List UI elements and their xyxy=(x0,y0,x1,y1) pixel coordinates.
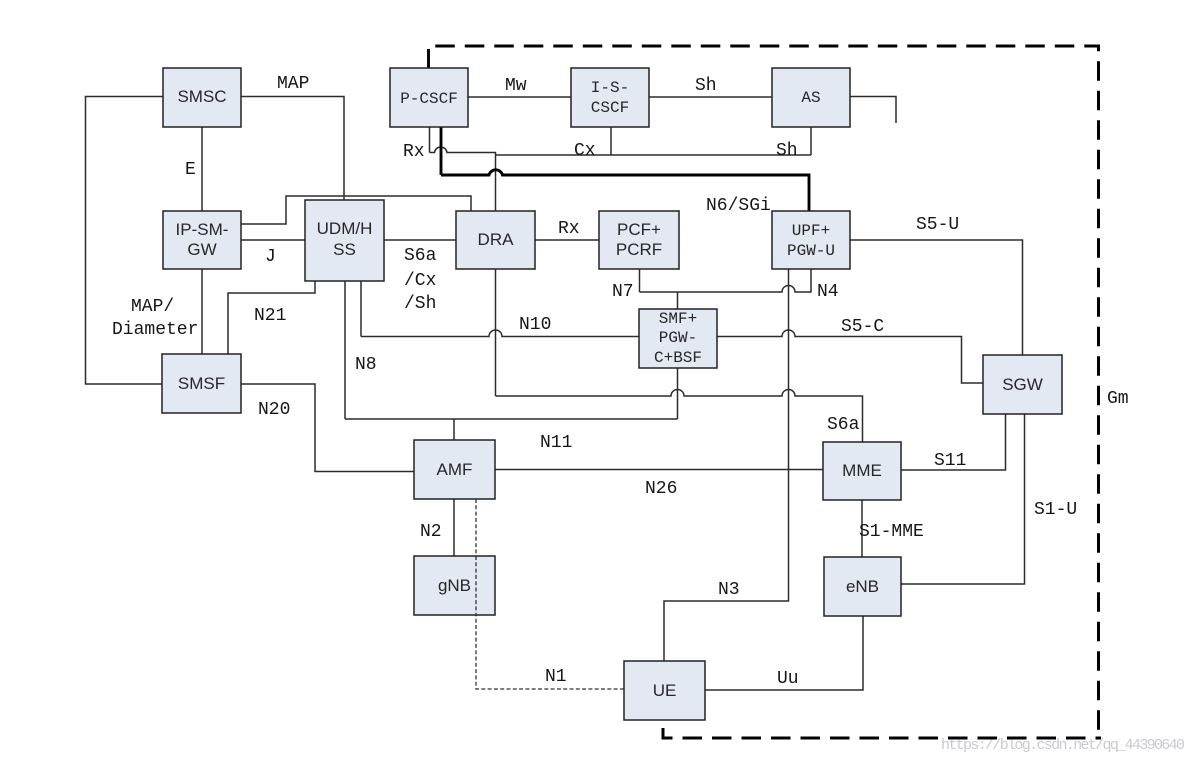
box SMSC xyxy=(163,68,241,127)
label N11 xyxy=(540,433,572,453)
wire N21 UDM/HSS to SMSF xyxy=(228,281,315,354)
svg-text:Mw: Mw xyxy=(505,76,527,96)
svg-text:PGW-: PGW- xyxy=(659,329,697,347)
svg-text:C+BSF: C+BSF xyxy=(654,349,702,367)
svg-text:IP-SM-: IP-SM- xyxy=(176,220,229,239)
label N20 xyxy=(258,400,290,420)
box UPF+PGW-U xyxy=(772,211,850,269)
svg-text:N11: N11 xyxy=(540,433,572,453)
svg-text:/Cx: /Cx xyxy=(404,271,436,291)
box UDM/HSS xyxy=(305,200,384,281)
svg-text:SMF+: SMF+ xyxy=(659,310,697,328)
box AS xyxy=(772,68,850,127)
label E xyxy=(185,160,196,180)
box SMSF xyxy=(162,354,241,413)
svg-text:PCF+: PCF+ xyxy=(617,220,661,239)
wire IP-SM-GW to DRA top xyxy=(241,196,471,224)
svg-text:AS: AS xyxy=(801,89,820,107)
label S5-C xyxy=(841,317,884,337)
label N7 xyxy=(612,282,634,302)
box SMF+PGW-C+BSF xyxy=(639,309,717,368)
wire S11 SGW to MME xyxy=(901,414,1006,470)
wire N2 AMF to gNB xyxy=(453,499,455,556)
svg-text:GW: GW xyxy=(187,240,216,259)
wire S1-MME MME to eNB xyxy=(861,500,863,557)
wire S6a/Cx/Sh UDM/HSS to DRA xyxy=(384,239,456,241)
wire E SMSC to IP-SM-GW xyxy=(201,127,203,211)
svg-text:N3: N3 xyxy=(718,580,740,600)
svg-text:N26: N26 xyxy=(645,479,677,499)
svg-text:SS: SS xyxy=(333,240,356,259)
svg-text:E: E xyxy=(185,160,196,180)
label S11 xyxy=(934,451,966,471)
label S6a MME xyxy=(827,415,860,435)
wire Rx DRA to PCF xyxy=(535,239,599,241)
svg-text:S11: S11 xyxy=(934,451,966,471)
wire S6a DRA to MME xyxy=(496,269,863,442)
label Cx xyxy=(574,141,596,161)
wire S5-U UPF to SGW xyxy=(850,240,1023,355)
wire N10 UDM/HSS to SMF xyxy=(361,281,639,337)
wire S5-C SMF to SGW xyxy=(717,330,983,383)
svg-text:PCRF: PCRF xyxy=(616,240,662,259)
svg-text:https://blog.csdn.net/qq_44390: https://blog.csdn.net/qq_44390640 xyxy=(941,737,1185,754)
label N3 xyxy=(718,580,740,600)
wire Sh I-S-CSCF to AS xyxy=(649,96,772,98)
label N10 xyxy=(519,315,551,335)
wire N7/N4 PCF-SMF-UPF xyxy=(640,269,812,309)
svg-text:N21: N21 xyxy=(254,306,286,326)
svg-text:Diameter: Diameter xyxy=(112,320,198,340)
box UE xyxy=(624,661,705,720)
label N21 xyxy=(254,306,286,326)
svg-text:MME: MME xyxy=(842,461,882,480)
wire SMSC-SMSF left loop xyxy=(86,97,164,385)
wire Gm tick into P-CSCF top xyxy=(427,49,430,68)
svg-text:S6a: S6a xyxy=(827,415,860,435)
svg-text:N10: N10 xyxy=(519,315,551,335)
box MME xyxy=(823,442,901,500)
label Sh AS bottom xyxy=(776,141,798,161)
wire MAP SMSC to UDM/HSS xyxy=(241,97,344,201)
svg-text:CSCF: CSCF xyxy=(591,99,629,117)
svg-text:N8: N8 xyxy=(355,355,377,375)
svg-text:S1-MME: S1-MME xyxy=(859,522,924,542)
svg-text:S1-U: S1-U xyxy=(1034,500,1077,520)
wire Mw P-CSCF to I-S-CSCF xyxy=(468,96,571,98)
label Sh top xyxy=(695,76,717,96)
wire N1 dashed AMF to UE xyxy=(476,499,624,689)
wire N20 SMSF to AMF xyxy=(241,384,414,472)
wire N3 UPF to UE xyxy=(664,269,789,661)
svg-text:SGW: SGW xyxy=(1002,375,1043,394)
box eNB xyxy=(824,557,901,616)
label S1-U xyxy=(1034,500,1077,520)
svg-text:N1: N1 xyxy=(545,667,567,687)
svg-text:UDM/H: UDM/H xyxy=(317,219,373,238)
wire Cx/Sh/Rx thin P-CSCF/I-S-CSCF/AS to DRA xyxy=(430,127,812,211)
label N2 xyxy=(420,522,442,542)
svg-text:N4: N4 xyxy=(817,282,839,302)
label N1 xyxy=(545,667,567,687)
svg-text:UPF+: UPF+ xyxy=(792,222,830,240)
wire S1-U SGW to eNB xyxy=(901,414,1025,584)
wire Uu UE to eNB xyxy=(705,616,863,690)
svg-text:Cx: Cx xyxy=(574,141,596,161)
svg-text:SMSC: SMSC xyxy=(177,87,226,106)
svg-text:Uu: Uu xyxy=(777,669,799,689)
svg-text:S6a: S6a xyxy=(404,246,437,266)
svg-text:Rx: Rx xyxy=(558,219,580,239)
wire N26 AMF to MME xyxy=(495,469,823,471)
svg-text:Rx: Rx xyxy=(403,142,425,162)
svg-text:I-S-: I-S- xyxy=(591,79,629,97)
svg-text:eNB: eNB xyxy=(846,577,879,596)
svg-text:N7: N7 xyxy=(612,282,634,302)
label N4 xyxy=(817,282,839,302)
label MAP xyxy=(277,74,309,94)
box DRA xyxy=(456,211,535,269)
box AMF xyxy=(414,440,495,499)
svg-text:N20: N20 xyxy=(258,400,290,420)
box PCF+PCRF xyxy=(599,211,679,269)
label N6/SGi xyxy=(706,196,771,216)
wire N6/SGi thick P-CSCF to UPF xyxy=(441,127,809,211)
label N26 xyxy=(645,479,677,499)
wire J IP-SM-GW to UDM/HSS xyxy=(241,239,305,241)
wire AS right stub xyxy=(850,97,896,124)
box P-CSCF xyxy=(390,68,468,127)
label S1-MME xyxy=(859,522,924,542)
svg-text:N2: N2 xyxy=(420,522,442,542)
svg-text:gNB: gNB xyxy=(438,576,471,595)
label MAP/Diameter xyxy=(112,297,198,340)
box SGW xyxy=(983,355,1062,414)
svg-text:S5-U: S5-U xyxy=(916,215,959,235)
box I-S-CSCF xyxy=(571,68,649,127)
wire MAP/Diameter IP-SM-GW to SMSF xyxy=(201,269,203,354)
label Gm xyxy=(1107,389,1129,409)
box gNB xyxy=(414,556,495,615)
svg-text:Sh: Sh xyxy=(695,76,717,96)
svg-text:DRA: DRA xyxy=(478,230,515,249)
svg-text:AMF: AMF xyxy=(437,460,473,479)
box IP-SM-GW xyxy=(163,211,241,269)
watermark text xyxy=(941,737,1185,754)
svg-text:N6/SGi: N6/SGi xyxy=(706,196,771,216)
wire N1 dashed overlay through gNB xyxy=(475,556,477,615)
wire N8/N11 UDM-AMF-SMF xyxy=(345,281,678,440)
label S6a/Cx/Sh xyxy=(404,246,437,314)
svg-text:UE: UE xyxy=(653,681,677,700)
svg-text:Gm: Gm xyxy=(1107,389,1129,409)
dashed border Gm (top, right, bottom-left stub) xyxy=(430,46,1101,738)
svg-text:J: J xyxy=(265,247,276,267)
svg-text:SMSF: SMSF xyxy=(178,374,225,393)
label Rx P-CSCF xyxy=(403,142,425,162)
label Mw xyxy=(505,76,527,96)
svg-text:/Sh: /Sh xyxy=(404,294,436,314)
svg-text:Sh: Sh xyxy=(776,141,798,161)
label Rx PCF xyxy=(558,219,580,239)
label Uu xyxy=(777,669,799,689)
svg-text:P-CSCF: P-CSCF xyxy=(400,90,458,108)
svg-text:MAP: MAP xyxy=(277,74,309,94)
label N8 xyxy=(355,355,377,375)
svg-text:MAP/: MAP/ xyxy=(131,297,174,317)
svg-text:PGW-U: PGW-U xyxy=(787,242,835,260)
label J xyxy=(265,247,276,267)
svg-text:S5-C: S5-C xyxy=(841,317,884,337)
label S5-U xyxy=(916,215,959,235)
